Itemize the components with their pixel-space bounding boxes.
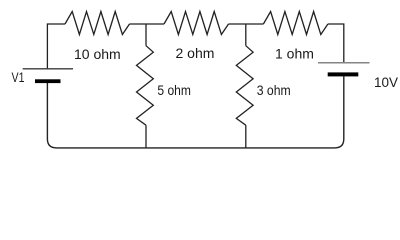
resistor R4	[137, 46, 154, 126]
wire V1 top to R1	[47, 24, 65, 69]
battery B2 plate long	[318, 62, 370, 64]
wire R2 to R3	[229, 23, 264, 25]
svg-text:5 ohm: 5 ohm	[157, 82, 191, 98]
svg-text:V1: V1	[12, 69, 25, 85]
wire node A down lead	[145, 24, 147, 46]
svg-text:3 ohm: 3 ohm	[257, 82, 291, 98]
svg-text:2 ohm: 2 ohm	[176, 45, 215, 61]
wire R3 to battery B2	[328, 24, 344, 62]
svg-text:10 ohm: 10 ohm	[74, 46, 121, 62]
battery V1 plate short	[35, 79, 61, 83]
bottom wire	[47, 76, 343, 147]
wire R1 to R2	[130, 23, 165, 25]
resistor R3	[263, 12, 328, 35]
wire R5 to bottom	[245, 125, 247, 148]
battery V1 plate long	[23, 68, 73, 70]
resistor R2	[164, 12, 229, 35]
resistor R5	[236, 46, 253, 126]
svg-text:10V: 10V	[374, 75, 398, 90]
wire node B down lead	[245, 24, 247, 46]
battery B2 plate short	[328, 72, 359, 76]
wire R4 to bottom	[145, 125, 147, 148]
resistor R1	[65, 12, 130, 35]
svg-text:1 ohm: 1 ohm	[275, 45, 314, 61]
